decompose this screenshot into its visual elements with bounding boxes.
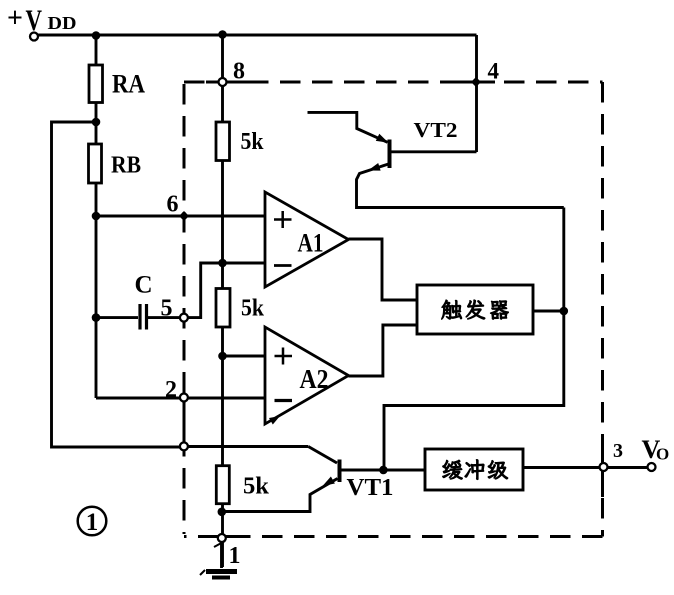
svg-text:A1: A1 [298, 229, 324, 258]
svg-text:5k: 5k [241, 129, 265, 155]
svg-text:RB: RB [111, 153, 141, 179]
svg-text:C: C [135, 272, 153, 299]
svg-text:RA: RA [112, 70, 145, 99]
svg-text:V: V [26, 4, 43, 37]
svg-text:3: 3 [613, 440, 623, 462]
svg-text:1: 1 [229, 543, 241, 569]
svg-text:DD: DD [48, 13, 77, 33]
svg-text:5: 5 [161, 296, 173, 322]
svg-text:6: 6 [167, 192, 179, 218]
svg-text:1: 1 [86, 509, 99, 536]
svg-text:5k: 5k [241, 296, 265, 322]
svg-text:A2: A2 [300, 364, 329, 394]
svg-text:VT1: VT1 [347, 475, 394, 501]
svg-text:O: O [656, 445, 669, 464]
svg-text:8: 8 [233, 59, 245, 85]
svg-text:2: 2 [165, 377, 177, 403]
svg-text:+: + [7, 3, 23, 34]
svg-text:5k: 5k [243, 474, 270, 500]
svg-text:VT2: VT2 [414, 118, 458, 142]
svg-text:4: 4 [488, 59, 500, 84]
